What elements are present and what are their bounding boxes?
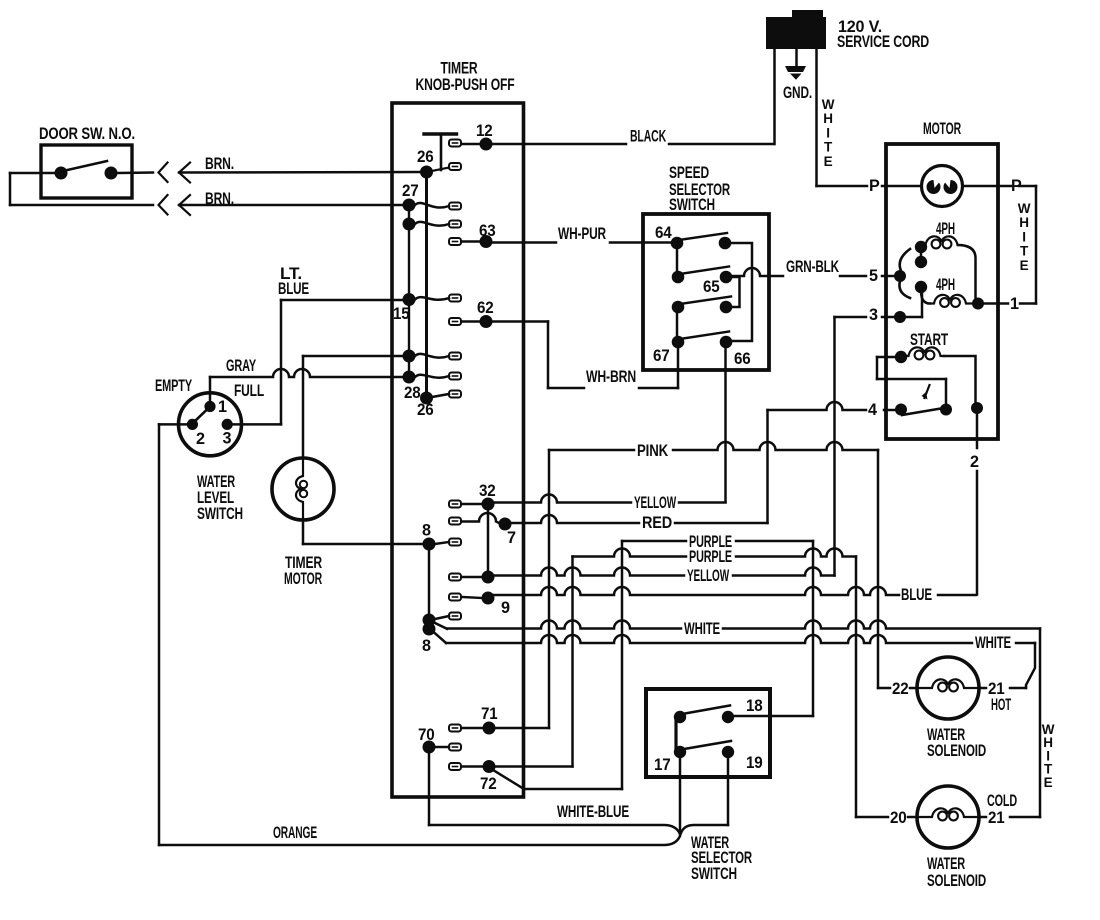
svg-text:GND.: GND. bbox=[783, 84, 812, 102]
svg-text:T: T bbox=[1020, 244, 1029, 259]
svg-text:E: E bbox=[824, 154, 833, 169]
svg-text:4PH: 4PH bbox=[936, 220, 955, 238]
svg-text:SPEED: SPEED bbox=[669, 164, 709, 182]
svg-text:KNOB-PUSH OFF: KNOB-PUSH OFF bbox=[416, 76, 515, 94]
svg-text:3: 3 bbox=[869, 306, 878, 324]
svg-text:2: 2 bbox=[196, 430, 205, 448]
svg-text:SWITCH: SWITCH bbox=[197, 505, 243, 523]
svg-text:FULL: FULL bbox=[234, 382, 264, 400]
svg-text:BLACK: BLACK bbox=[630, 128, 666, 146]
svg-text:26: 26 bbox=[417, 401, 434, 419]
svg-text:27: 27 bbox=[402, 182, 419, 200]
svg-text:I: I bbox=[1022, 229, 1026, 244]
svg-text:26: 26 bbox=[417, 148, 434, 166]
svg-text:5: 5 bbox=[869, 267, 878, 285]
svg-text:72: 72 bbox=[480, 775, 497, 793]
svg-text:T: T bbox=[824, 140, 833, 155]
svg-text:22: 22 bbox=[892, 680, 909, 698]
svg-text:START: START bbox=[910, 331, 948, 349]
svg-text:SOLENOID: SOLENOID bbox=[927, 872, 986, 890]
svg-text:62: 62 bbox=[477, 299, 494, 317]
svg-text:67: 67 bbox=[653, 347, 670, 365]
svg-text:YELLOW: YELLOW bbox=[687, 567, 730, 585]
svg-text:8: 8 bbox=[422, 637, 431, 655]
svg-text:WHITE-BLUE: WHITE-BLUE bbox=[557, 803, 629, 821]
svg-text:YELLOW: YELLOW bbox=[634, 494, 677, 512]
svg-text:WHITE: WHITE bbox=[975, 634, 1011, 652]
svg-text:17: 17 bbox=[654, 756, 671, 774]
svg-text:PINK: PINK bbox=[637, 442, 668, 460]
svg-text:21: 21 bbox=[988, 809, 1005, 827]
svg-text:W: W bbox=[822, 97, 835, 112]
svg-text:18: 18 bbox=[746, 697, 763, 715]
svg-text:HOT: HOT bbox=[991, 696, 1011, 714]
svg-text:15: 15 bbox=[393, 305, 410, 323]
svg-text:H: H bbox=[823, 111, 833, 126]
svg-text:H: H bbox=[1019, 215, 1029, 230]
svg-text:64: 64 bbox=[655, 224, 672, 242]
svg-text:SOLENOID: SOLENOID bbox=[927, 742, 986, 760]
svg-text:MOTOR: MOTOR bbox=[923, 120, 961, 138]
svg-text:66: 66 bbox=[734, 350, 751, 368]
svg-text:E: E bbox=[1020, 258, 1029, 273]
svg-text:3: 3 bbox=[223, 430, 232, 448]
svg-text:63: 63 bbox=[479, 222, 496, 240]
svg-text:GRAY: GRAY bbox=[226, 357, 256, 375]
svg-text:12: 12 bbox=[476, 122, 493, 140]
svg-text:WHITE: WHITE bbox=[684, 620, 720, 638]
svg-text:20: 20 bbox=[890, 809, 907, 827]
svg-text:COLD: COLD bbox=[987, 792, 1017, 810]
svg-text:19: 19 bbox=[746, 754, 763, 772]
svg-text:SWITCH: SWITCH bbox=[691, 865, 737, 883]
svg-text:9: 9 bbox=[501, 599, 510, 617]
svg-text:1: 1 bbox=[1010, 295, 1019, 313]
svg-text:WATER: WATER bbox=[927, 855, 965, 873]
svg-text:DOOR SW. N.O.: DOOR SW. N.O. bbox=[39, 125, 135, 143]
svg-text:P: P bbox=[869, 177, 880, 195]
svg-text:BRN.: BRN. bbox=[205, 155, 234, 173]
svg-text:GRN-BLK: GRN-BLK bbox=[786, 258, 839, 276]
svg-text:65: 65 bbox=[703, 278, 720, 296]
svg-text:W: W bbox=[1018, 201, 1031, 216]
svg-text:I: I bbox=[826, 125, 830, 140]
svg-text:EMPTY: EMPTY bbox=[155, 377, 192, 395]
svg-text:28: 28 bbox=[404, 384, 421, 402]
svg-text:2: 2 bbox=[970, 453, 979, 471]
svg-text:BLUE: BLUE bbox=[278, 280, 309, 298]
svg-text:70: 70 bbox=[418, 726, 435, 744]
svg-text:TIMER: TIMER bbox=[441, 60, 478, 78]
svg-text:ORANGE: ORANGE bbox=[273, 824, 317, 842]
svg-text:4PH: 4PH bbox=[936, 276, 955, 294]
svg-text:WH-PUR: WH-PUR bbox=[558, 225, 606, 243]
svg-text:RED: RED bbox=[642, 514, 672, 532]
svg-text:4: 4 bbox=[868, 401, 877, 419]
svg-text:WH-BRN: WH-BRN bbox=[586, 368, 636, 386]
svg-text:SWITCH: SWITCH bbox=[669, 196, 715, 214]
svg-text:BLUE: BLUE bbox=[901, 586, 932, 604]
svg-text:PURPLE: PURPLE bbox=[689, 548, 732, 566]
svg-text:7: 7 bbox=[507, 529, 516, 547]
svg-text:BRN.: BRN. bbox=[205, 190, 234, 208]
svg-text:71: 71 bbox=[481, 705, 498, 723]
svg-text:32: 32 bbox=[479, 482, 496, 500]
svg-text:1: 1 bbox=[218, 398, 227, 416]
svg-text:SERVICE CORD: SERVICE CORD bbox=[837, 33, 929, 51]
svg-text:MOTOR: MOTOR bbox=[284, 570, 322, 588]
svg-text:E: E bbox=[1044, 775, 1053, 790]
svg-text:8: 8 bbox=[422, 522, 431, 540]
